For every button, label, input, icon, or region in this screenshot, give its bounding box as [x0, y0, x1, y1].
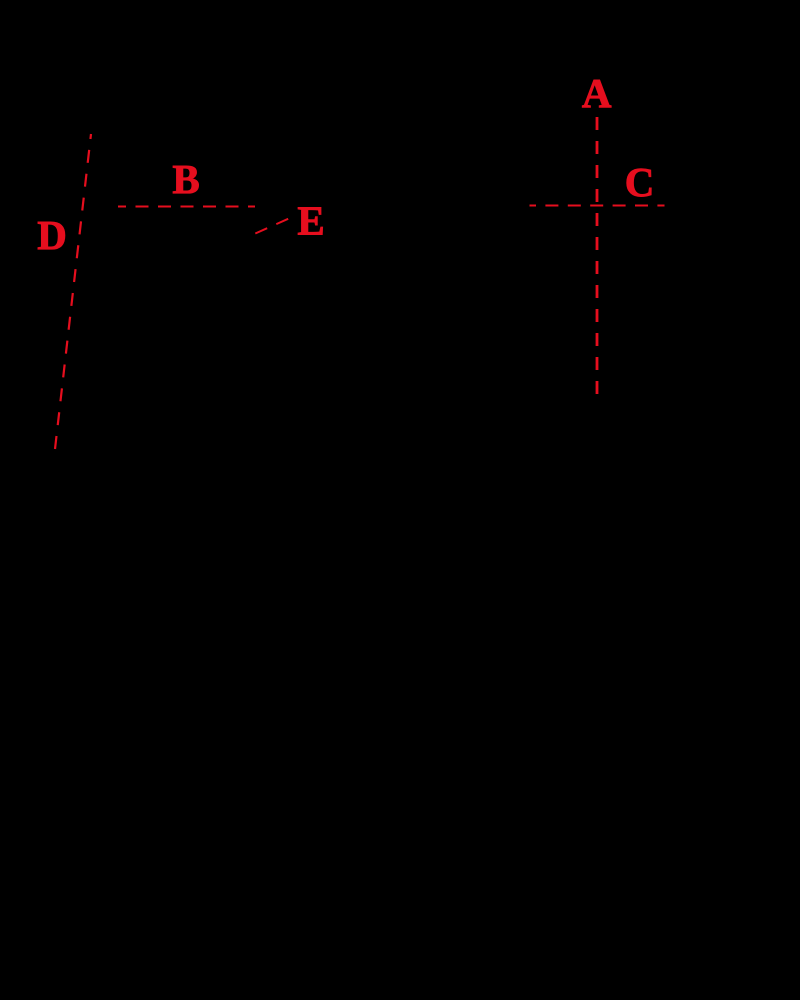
- svg-text:E: E: [297, 198, 324, 244]
- svg-text:D: D: [37, 212, 67, 258]
- svg-text:A: A: [582, 70, 612, 116]
- svg-text:B: B: [172, 156, 199, 202]
- svg-text:C: C: [625, 159, 655, 205]
